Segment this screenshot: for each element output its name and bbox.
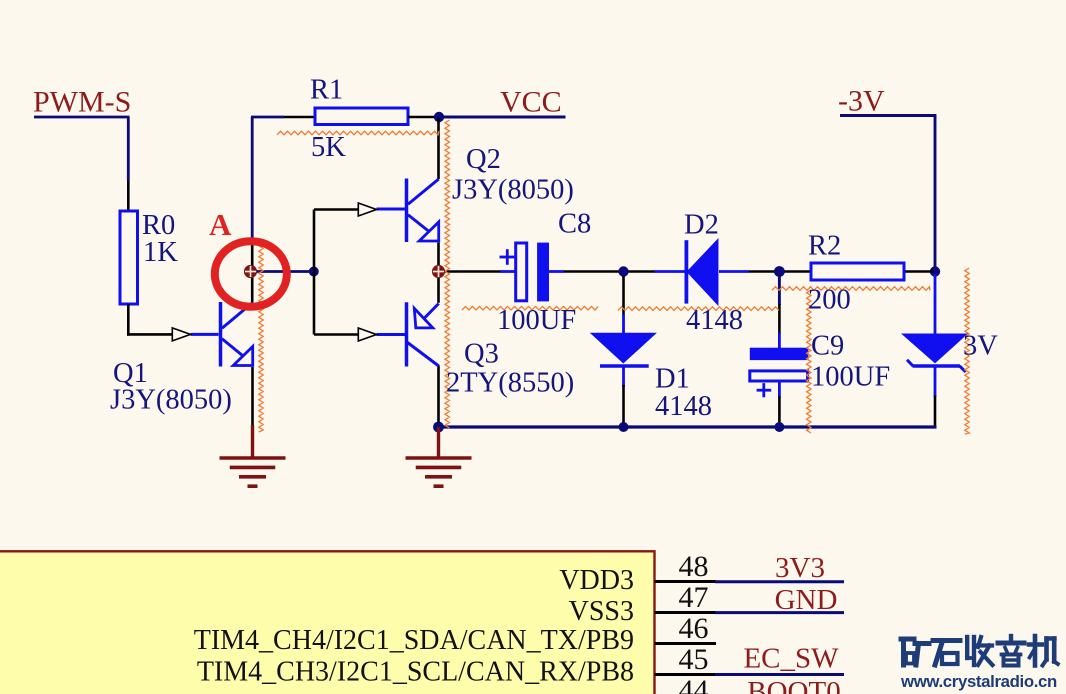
svg-text:VSS3: VSS3 xyxy=(569,596,634,627)
svg-text:4148: 4148 xyxy=(686,305,743,336)
svg-text:A: A xyxy=(209,207,232,242)
svg-text:48: 48 xyxy=(679,550,709,583)
svg-text:100UF: 100UF xyxy=(497,305,576,336)
svg-text:-3V: -3V xyxy=(838,85,885,118)
svg-text:PWM-S: PWM-S xyxy=(33,86,131,119)
svg-text:D1: D1 xyxy=(655,364,690,395)
svg-text:D2: D2 xyxy=(684,210,719,241)
svg-text:J3Y(8050): J3Y(8050) xyxy=(110,385,232,416)
svg-text:C8: C8 xyxy=(558,209,591,240)
svg-text:Q2: Q2 xyxy=(466,144,501,175)
svg-text:BOOT0: BOOT0 xyxy=(747,676,840,694)
svg-text:Q3: Q3 xyxy=(464,339,499,370)
svg-text:2TY(8550): 2TY(8550) xyxy=(446,368,574,399)
svg-text:1K: 1K xyxy=(143,237,178,268)
svg-text:TIM4_CH3/I2C1_SCL/CAN_RX/PB8: TIM4_CH3/I2C1_SCL/CAN_RX/PB8 xyxy=(197,657,634,688)
svg-text:TIM4_CH4/I2C1_SDA/CAN_TX/PB9: TIM4_CH4/I2C1_SDA/CAN_TX/PB9 xyxy=(194,625,634,656)
svg-text:www.crystalradio.cn: www.crystalradio.cn xyxy=(900,672,1057,691)
svg-text:R1: R1 xyxy=(310,75,343,106)
svg-text:R2: R2 xyxy=(808,231,841,262)
svg-text:C9: C9 xyxy=(811,331,844,362)
svg-text:4148: 4148 xyxy=(655,391,712,422)
svg-text:GND: GND xyxy=(775,584,838,616)
svg-text:EC_SW: EC_SW xyxy=(743,643,839,675)
svg-text:45: 45 xyxy=(679,643,709,676)
svg-text:VCC: VCC xyxy=(500,86,562,119)
svg-text:44: 44 xyxy=(679,674,709,694)
svg-text:3V3: 3V3 xyxy=(775,552,825,584)
svg-text:3V: 3V xyxy=(963,331,998,362)
svg-text:100UF: 100UF xyxy=(811,362,890,393)
svg-text:47: 47 xyxy=(679,581,709,614)
svg-text:46: 46 xyxy=(679,612,709,645)
svg-text:J3Y(8050): J3Y(8050) xyxy=(452,175,574,206)
svg-text:VDD3: VDD3 xyxy=(559,565,634,596)
svg-text:5K: 5K xyxy=(311,132,346,163)
svg-text:200: 200 xyxy=(808,285,851,316)
